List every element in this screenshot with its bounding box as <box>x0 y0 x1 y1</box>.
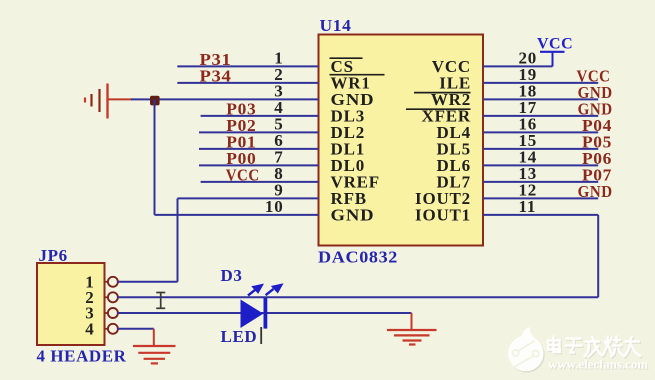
wire pin7 net P00 <box>199 164 319 166</box>
wire JP6 pin4 to ground <box>118 328 154 330</box>
svg-text:VCC: VCC <box>226 165 260 184</box>
LED triangle anode <box>241 300 264 329</box>
svg-text:GND: GND <box>578 182 613 201</box>
watermark logo circle <box>508 327 543 371</box>
VCC power symbol <box>537 36 573 67</box>
connector JP6 body <box>37 263 105 345</box>
svg-text:10: 10 <box>265 197 284 216</box>
JP6 pin 3 <box>85 304 118 323</box>
wire pin1 CS net P31 <box>177 65 318 67</box>
wire pin4 net P03 <box>201 115 319 117</box>
wire pin3 GND net <box>131 98 319 100</box>
watermark shadow <box>509 337 544 372</box>
pin name WR2 with overbar <box>414 90 471 109</box>
wire pin12 net GND <box>483 197 598 199</box>
JP6 pin 1 <box>85 272 118 291</box>
wire pin5 net P02 <box>199 131 319 133</box>
junction dot <box>150 96 160 106</box>
wire pin13 net P07 <box>483 181 598 183</box>
wire pin19 net VCC <box>483 82 598 84</box>
LED arrow 1 <box>248 284 263 295</box>
pin name CS with overbar <box>330 57 363 76</box>
JP6 pin 4 <box>85 319 118 338</box>
svg-text:LED: LED <box>221 327 258 346</box>
ground symbol left (rotated) <box>85 84 132 119</box>
svg-text:GND: GND <box>331 205 375 224</box>
wire JP6 pin1 to pin9 (horizontal) <box>118 281 178 283</box>
svg-text:11: 11 <box>519 197 537 216</box>
diode D3 LED <box>221 266 283 346</box>
wire pin6 net P01 <box>199 148 319 150</box>
wire JP6 pin3 through LED <box>118 312 412 314</box>
wire pin20 VCC <box>483 65 553 67</box>
wire pin15 net P05 <box>483 148 598 150</box>
wire vertical junction to pin10 <box>154 99 156 214</box>
svg-text:4 HEADER: 4 HEADER <box>37 347 127 366</box>
wire pin17 net GND <box>483 115 598 117</box>
wire JP6 pin1 to pin9 (vertical) <box>177 198 179 281</box>
wire pin8 net VCC <box>201 181 319 183</box>
svg-text:JP6: JP6 <box>39 246 68 265</box>
ground symbol right <box>387 330 437 345</box>
svg-text:4: 4 <box>85 319 94 338</box>
wire pin2 WR1 net P34 <box>177 82 318 84</box>
svg-text:www.elecfans.com: www.elecfans.com <box>548 357 648 372</box>
ground stub JP6 pin4 <box>153 329 155 346</box>
wire pin16 net P04 <box>483 131 598 133</box>
pin name XFER with overbar <box>406 106 471 125</box>
pin name WR1 with overbar <box>330 73 385 92</box>
IC U14 body <box>319 35 484 246</box>
wire pin9 RFB <box>178 197 319 199</box>
svg-text:D3: D3 <box>221 266 243 285</box>
svg-text:DAC0832: DAC0832 <box>318 248 398 267</box>
ground symbol below JP6 <box>133 346 176 363</box>
JP6 pin 2 <box>85 288 118 307</box>
wire pin14 net P06 <box>483 164 598 166</box>
wire pin10 GND <box>155 214 319 216</box>
wire pin18 net GND <box>483 98 598 100</box>
wire JP6 pin2 to IOUT1 <box>118 296 599 298</box>
wire pin11 IOUT1 <box>483 214 598 216</box>
watermark brand text (stylized) <box>549 338 641 358</box>
svg-text:U14: U14 <box>320 16 352 35</box>
svg-text:VCC: VCC <box>537 36 573 53</box>
LED cathode bar <box>264 298 268 329</box>
svg-text:P34: P34 <box>200 66 232 85</box>
ground stub right of LED <box>411 313 413 330</box>
wire vertical pin11 down <box>597 215 599 297</box>
text cursor I-beam <box>156 292 165 308</box>
text caret after LED <box>260 327 262 344</box>
LED arrow 2 <box>266 284 283 295</box>
svg-text:IOUT1: IOUT1 <box>415 205 471 224</box>
